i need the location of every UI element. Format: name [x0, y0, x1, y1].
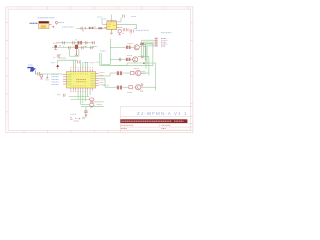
svg-text:ZJ-WFMN-A V1.1: ZJ-WFMN-A V1.1 — [137, 111, 188, 116]
